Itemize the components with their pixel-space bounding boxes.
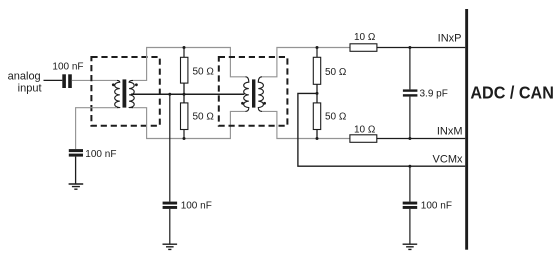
ground G3 [403,244,418,249]
wire C2 to ground [75,157,77,184]
wire T1 secondary top loop to T2 primary top [133,48,246,81]
wire C5 to ground [409,209,411,244]
wire R1 top lead [183,48,185,58]
node junction dot top wire R1 [183,46,186,49]
ground G1 [69,184,84,189]
resistor R5 10 ohm INxP [350,44,377,52]
capacitor C1 100 nF series [62,74,66,88]
svg-text:3.9 pF: 3.9 pF [420,89,448,100]
resistor R1 50 ohm [181,57,188,83]
svg-text:50 Ω: 50 Ω [193,111,215,122]
wire R3 to R4 [316,84,318,103]
svg-text:INxP: INxP [438,32,462,44]
svg-text:50 Ω: 50 Ω [193,67,215,78]
node junction dot INxM R4 chain [316,137,319,140]
ground G2 [163,244,178,249]
T2 phase dot right [263,102,266,105]
wire midpoint to VCMx [298,93,465,166]
transformer T1 dashed box [91,57,159,126]
resistor R4 50 ohm [313,103,320,130]
svg-text:input: input [18,83,42,95]
wire T1 secondary bottom loop to T2 primary bottom [133,108,246,139]
node junction dot INxM C4 [408,137,411,140]
wire C4 top lead [409,48,411,90]
ADC boundary bar [465,9,468,250]
wire R4 bottom lead [316,130,318,139]
wire VCMx to C5 [409,166,411,201]
node junction dot R3R4 midpoint [316,92,319,95]
wire R1 to R2 [183,83,185,103]
wire T2 secondary bottom to INxM line [262,111,350,138]
wire R2 bottom lead [183,130,185,139]
wire input to C1 [44,79,63,81]
resistor R3 50 ohm [313,57,320,84]
T2 phase dot left [241,102,244,105]
capacitor C2 100 nF shunt [69,149,83,152]
wire C1 to T1 primary top [72,79,117,81]
transformer T2 core [252,79,255,107]
svg-text:100 nF: 100 nF [85,149,116,160]
transformer T2 secondary winding [258,77,263,112]
svg-text:analog: analog [8,70,41,82]
capacitor C4 3.9 pF [403,89,418,91]
svg-text:INxM: INxM [437,125,463,137]
T1 phase dot left [112,83,115,86]
wire R5 to ADC INxP [377,47,465,49]
T1 phase dot right [135,83,138,86]
wire T2 secondary top to INxP line [262,48,350,77]
transformer T1 secondary winding with center tap [129,80,134,107]
capacitor C5 100 nF [403,202,418,205]
svg-text:ADC / CAN: ADC / CAN [470,83,554,103]
svg-text:10 Ω: 10 Ω [354,32,376,43]
svg-text:100 nF: 100 nF [181,201,212,212]
svg-text:100 nF: 100 nF [52,62,83,73]
node junction dot INxP R3 chain [316,46,319,49]
svg-text:VCMx: VCMx [433,154,463,166]
svg-text:50 Ω: 50 Ω [325,67,347,78]
node junction dot bottom wire R2 [183,137,186,140]
resistor R6 10 ohm INxM [350,135,377,143]
wire T1 primary bottom to C2 [76,108,117,149]
transformer T2 dashed box [219,57,288,126]
wire R6 to ADC INxM [377,138,465,140]
svg-text:10 Ω: 10 Ω [354,124,376,135]
wire R3 top lead [316,48,318,58]
wire center tap line T1 to T2 [131,93,244,95]
transformer T2 primary winding with center tap [244,77,249,112]
node junction dot tap line R1R2 [183,93,186,96]
wire tap to C3 [169,94,171,201]
wire C3 to ground [169,209,171,244]
transformer T1 primary winding [115,80,120,107]
resistor R2 50 ohm [181,103,188,130]
node junction dot tap line C3 branch [168,93,171,96]
capacitor C3 100 nF [163,202,178,205]
svg-text:100 nF: 100 nF [421,201,452,212]
node junction dot VCMx C5 [408,165,411,168]
node junction dot INxP C4 [408,46,411,49]
transformer T1 core [123,79,127,107]
svg-text:50 Ω: 50 Ω [325,112,347,123]
wire C4 bottom lead [409,97,411,139]
